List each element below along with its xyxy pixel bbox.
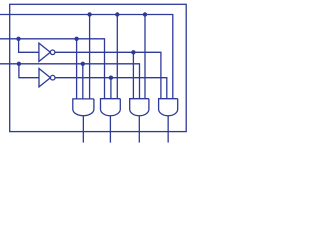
wire G1 output	[82, 116, 84, 143]
node wire2-inv1	[16, 37, 20, 41]
border frame	[10, 4, 187, 131]
node A-G1	[74, 37, 78, 41]
inverter U2 triangle	[39, 69, 50, 87]
wire inverter2 input	[19, 64, 39, 78]
wire Abar drop to G3	[132, 52, 134, 98]
wire G3 output	[138, 116, 140, 143]
wire E drop to G2	[116, 15, 118, 99]
node B-G1	[81, 62, 85, 66]
wire G2 output	[109, 116, 111, 143]
inverter U2 bubble	[50, 75, 55, 80]
node wire3-inv2	[17, 62, 21, 66]
wire G4 output	[167, 116, 169, 143]
AND gate G2 body	[101, 99, 121, 116]
inverter U1 triangle	[39, 43, 50, 61]
wire A (second input wire)	[0, 39, 105, 99]
wire B (third input wire)	[0, 64, 140, 99]
AND gate G4 body	[159, 99, 178, 116]
wire E drop to G3	[144, 15, 146, 99]
inverter U1 bubble	[50, 50, 55, 55]
node Abar-G3	[131, 50, 135, 54]
node E-G2	[115, 12, 119, 16]
wire E drop to G1	[89, 15, 91, 99]
node E-G3	[143, 12, 147, 16]
wire Bbar drop to G2	[110, 78, 112, 99]
wire A drop to G1	[76, 39, 78, 99]
AND gate G3 body	[130, 99, 149, 116]
AND gate G1 body	[73, 99, 94, 116]
wire Abar (inverter1 output)	[55, 52, 161, 98]
wire E (top input wire)	[0, 15, 173, 99]
wire Bbar (inverter2 output)	[55, 78, 167, 99]
node Bbar-G2	[109, 76, 113, 80]
node E-G1	[87, 12, 91, 16]
wire B drop to G1	[82, 64, 84, 99]
wire inverter1 input	[19, 39, 39, 53]
